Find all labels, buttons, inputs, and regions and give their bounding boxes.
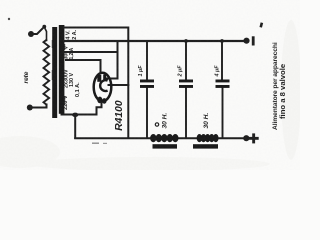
wire HT+ bus <box>64 40 247 42</box>
tube base pins <box>97 97 102 104</box>
label minus <box>252 36 255 45</box>
node cap2 bus junction <box>184 39 188 43</box>
label plus <box>249 133 259 143</box>
paper background <box>0 0 300 170</box>
tube anode plate right <box>103 75 106 80</box>
wire tap anode inner <box>66 60 101 73</box>
node filament junction <box>72 113 78 117</box>
wire tube base lead <box>97 102 102 115</box>
output terminal minus top <box>243 38 249 44</box>
rectifier tube V1 envelope <box>94 73 112 101</box>
capacitor C3 plates <box>216 80 230 88</box>
wire output rail segment 2 <box>178 137 197 139</box>
mains input terminal top <box>28 31 34 37</box>
transformer core <box>52 27 57 118</box>
capacitor C1 plates <box>140 80 154 88</box>
wire tube cathode to rail <box>109 84 129 86</box>
wire switch to primary <box>45 29 47 41</box>
ink speck top right <box>259 22 263 27</box>
capacitor C2 plates <box>179 80 193 88</box>
choke L2 winding <box>197 134 219 142</box>
mains input terminal bottom <box>27 105 33 111</box>
wire primary bottom <box>31 105 47 108</box>
tube anode plate left <box>97 75 101 82</box>
output terminal plus bottom <box>243 135 249 141</box>
switch contact dot <box>42 25 46 29</box>
wire tap1 to bus <box>64 28 128 42</box>
wire output rail segment 3 <box>218 137 247 139</box>
wire junction down to rail <box>74 115 76 139</box>
switch lever <box>31 27 44 34</box>
wire cap2 bottom lead <box>185 88 187 139</box>
choke L2 core <box>193 144 218 148</box>
node cap3 bus junction <box>220 39 224 43</box>
wire cap3 bottom lead <box>222 88 224 139</box>
wire output rail segment 1 <box>75 137 150 139</box>
wire cap3 top lead <box>221 41 223 79</box>
primary winding zigzag <box>44 40 50 105</box>
choke L1 core <box>153 144 178 148</box>
transformer secondary winding <box>59 25 65 114</box>
wire cap1 bottom lead <box>146 88 148 139</box>
wire cap1 top lead <box>146 41 148 79</box>
wire tap anode outer <box>64 51 118 53</box>
choke L1 winding <box>150 134 178 142</box>
ink speck top left <box>8 18 10 20</box>
wire bus down to rail <box>127 41 129 138</box>
ink speck ring near L1 <box>155 123 158 126</box>
wire anode drop <box>105 41 118 79</box>
wire filament tap <box>62 114 97 116</box>
noise specks below rail <box>92 143 99 144</box>
tube filament <box>100 80 107 91</box>
wire cap2 top lead <box>185 41 187 79</box>
